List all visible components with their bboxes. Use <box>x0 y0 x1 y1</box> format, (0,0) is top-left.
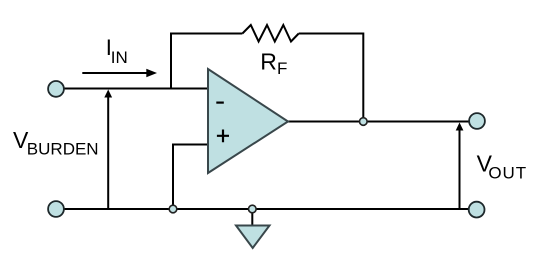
svg-text:R: R <box>260 48 277 74</box>
svg-text:OUT: OUT <box>488 164 527 183</box>
svg-text:BURDEN: BURDEN <box>27 140 99 159</box>
svg-text:F: F <box>277 59 287 78</box>
svg-text:IN: IN <box>111 48 128 67</box>
